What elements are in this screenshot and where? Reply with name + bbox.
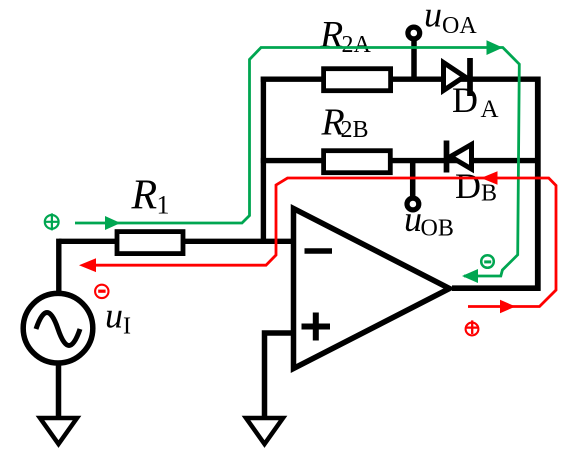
op-amp U1 triangle bbox=[294, 209, 450, 369]
wire: non-inverting input to ground bbox=[265, 333, 295, 418]
wire: op-amp output horizontal bbox=[452, 285, 541, 291]
wire: source top stub bbox=[56, 239, 61, 292]
op-amp inverting input minus sign bbox=[305, 248, 333, 254]
svg-text:D: D bbox=[452, 80, 478, 120]
green arrow at output node (pointing left) bbox=[462, 269, 478, 283]
red plus-polarity symbol near output bbox=[466, 320, 479, 335]
diode DA cathode bar bbox=[467, 58, 473, 96]
svg-text:D: D bbox=[455, 166, 481, 206]
ground (right, under op-amp + input) bbox=[246, 418, 283, 444]
red arrow on input wire (pointing left) bbox=[79, 258, 96, 272]
source sine symbol bbox=[36, 313, 80, 346]
svg-text:OB: OB bbox=[421, 216, 454, 242]
green plus-polarity symbol near source bbox=[45, 213, 59, 230]
terminal uOB circle bbox=[407, 198, 419, 210]
svg-text:OA: OA bbox=[442, 13, 477, 39]
wire: left vertical joining branches to inverting input node bbox=[261, 77, 266, 242]
resistor R2A body bbox=[324, 69, 391, 91]
terminal uOA circle bbox=[408, 27, 420, 39]
svg-text:u: u bbox=[424, 0, 442, 35]
red current path polyline bbox=[85, 178, 556, 307]
svg-text:A: A bbox=[481, 96, 499, 123]
svg-text:1: 1 bbox=[157, 191, 170, 220]
svg-text:R: R bbox=[319, 14, 343, 56]
green arrow on input wire (pointing right) bbox=[105, 216, 121, 230]
diode DB triangle (pointing left) bbox=[451, 145, 472, 170]
svg-text:R: R bbox=[131, 173, 158, 219]
green minus-polarity symbol near output bbox=[481, 255, 494, 268]
red minus-polarity symbol near source bbox=[95, 285, 108, 298]
svg-text:2A: 2A bbox=[342, 32, 372, 58]
wire: middle branch horizontal (R2B/DB branch) bbox=[261, 158, 540, 163]
svg-text:u: u bbox=[105, 296, 123, 336]
svg-text:I: I bbox=[123, 314, 131, 340]
svg-text:2B: 2B bbox=[341, 117, 369, 143]
wire: main input horizontal (source to op-amp inverting input) bbox=[59, 239, 294, 244]
wire: uOA terminal stub bbox=[411, 38, 417, 81]
ground (left, under source) bbox=[40, 418, 77, 444]
green arrow on top branch (pointing right) bbox=[487, 40, 503, 55]
red arrow on output (pointing right) bbox=[500, 300, 516, 314]
svg-text:u: u bbox=[404, 199, 422, 239]
diode DA triangle (pointing right) bbox=[444, 63, 465, 91]
green current path polyline bbox=[75, 48, 519, 277]
resistor R2B body bbox=[324, 151, 391, 173]
wire: source bottom stub bbox=[56, 364, 62, 418]
wire: right vertical (output feedback bus) bbox=[535, 77, 541, 291]
diode DB cathode bar bbox=[444, 141, 450, 173]
resistor R1 body bbox=[117, 232, 183, 254]
red arrow on DB branch (pointing left) bbox=[481, 171, 498, 185]
wire: uOB terminal stub bbox=[410, 160, 416, 198]
svg-text:B: B bbox=[481, 181, 497, 207]
wire: top branch horizontal (R2A/DA branch) bbox=[261, 76, 540, 81]
op-amp non-inverting input plus sign bbox=[302, 313, 331, 341]
source uI circle bbox=[23, 293, 93, 363]
